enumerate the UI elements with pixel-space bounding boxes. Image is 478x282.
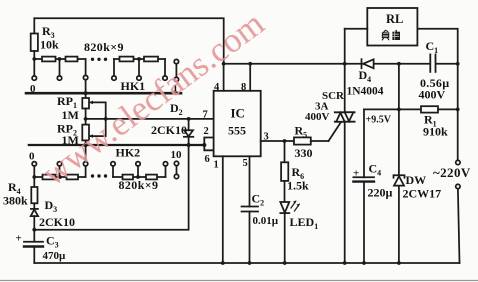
wire +9.5V box	[364, 108, 399, 110]
svg-text:400V: 400V	[419, 88, 446, 102]
svg-text:470µ: 470µ	[43, 250, 67, 262]
svg-text:2CW17: 2CW17	[403, 187, 442, 201]
svg-text:820k×9: 820k×9	[119, 178, 159, 192]
zener DW	[394, 176, 404, 185]
svg-text:0: 0	[29, 151, 35, 163]
svg-text:+: +	[353, 168, 359, 180]
wire pin2/6 bracket	[204, 138, 213, 151]
svg-text:1M: 1M	[62, 108, 79, 122]
node AC terminals	[456, 160, 460, 164]
potentiometer RP2	[82, 125, 89, 141]
svg-text:C3: C3	[46, 234, 59, 250]
node HK2 contacts	[32, 162, 36, 166]
relay RL load box	[367, 8, 417, 46]
LED LED1	[280, 202, 289, 213]
svg-text:3: 3	[264, 132, 269, 143]
diode D2	[188, 119, 190, 130]
svg-text:220µ: 220µ	[368, 186, 393, 200]
svg-text:6: 6	[205, 154, 210, 165]
svg-text:7: 7	[203, 110, 208, 121]
svg-text:1N4004: 1N4004	[347, 86, 384, 98]
capacitor C4	[353, 176, 374, 178]
capacitor C3	[33, 230, 35, 242]
svg-text:2CK10: 2CK10	[151, 123, 187, 137]
svg-text:5: 5	[243, 158, 248, 169]
svg-text:0: 0	[30, 83, 36, 95]
resistor R6	[284, 141, 286, 162]
wire pin3	[261, 140, 294, 142]
wire HK2 chain	[34, 176, 85, 178]
svg-text:555: 555	[228, 124, 246, 138]
svg-text:~220V: ~220V	[433, 165, 471, 180]
wire pin7 net	[86, 118, 214, 120]
svg-text:C4: C4	[369, 162, 382, 178]
svg-text:D3: D3	[45, 198, 58, 214]
svg-text:380k: 380k	[3, 194, 28, 208]
svg-text:+9.5V: +9.5V	[366, 115, 392, 126]
svg-text:330: 330	[295, 146, 313, 160]
triac SCR	[344, 29, 346, 113]
wire bottom rail	[34, 262, 459, 264]
svg-text:10k: 10k	[40, 38, 59, 52]
svg-text:820k×9: 820k×9	[84, 40, 124, 54]
wire HK1 wiper bus	[26, 92, 181, 95]
diode D3	[31, 208, 38, 210]
wire vcc rail	[224, 63, 430, 65]
svg-text:4: 4	[214, 82, 220, 93]
svg-text:D4: D4	[359, 68, 372, 84]
node HK1 taps	[33, 59, 35, 76]
capacitor C2	[242, 206, 259, 208]
chain ellipsis dots	[91, 58, 94, 61]
svg-text:+: +	[16, 233, 22, 245]
svg-text:1: 1	[214, 160, 219, 171]
wire pin4	[223, 64, 225, 91]
svg-text:DW: DW	[406, 173, 427, 187]
svg-text:LED1: LED1	[290, 215, 319, 231]
bottom border	[0, 280, 478, 282]
wire RL left lead	[345, 28, 368, 30]
resistor R3	[33, 18, 35, 33]
svg-text:8: 8	[241, 82, 246, 93]
svg-text:2: 2	[204, 126, 209, 137]
IC 555 U1	[214, 91, 261, 157]
wire top rail	[34, 18, 223, 64]
pin numbers	[203, 82, 269, 171]
resistor R1	[399, 108, 421, 110]
capacitor C1	[429, 54, 431, 72]
wire RL right lead	[417, 29, 457, 161]
svg-text:400V: 400V	[305, 111, 330, 123]
potentiometer RP1	[85, 93, 87, 98]
label SCR	[305, 90, 345, 123]
diode D4	[361, 59, 363, 68]
wire HK1 chain	[34, 58, 85, 60]
node HK2 output terminals	[174, 161, 178, 165]
svg-text:C2: C2	[252, 192, 265, 208]
svg-text:2CK10: 2CK10	[39, 215, 75, 229]
wire pin5	[249, 156, 251, 206]
wire SCR gate	[329, 122, 341, 141]
wire pin2/6 bus (HK2 wiper)	[29, 144, 205, 146]
svg-text:10: 10	[171, 149, 183, 161]
wire D3 to D2 column	[34, 145, 188, 230]
label RL chinese 负载 (drawn)	[382, 30, 400, 40]
svg-text:IC: IC	[231, 106, 245, 121]
node HK1 output terminals	[174, 59, 178, 63]
svg-text:R5: R5	[295, 124, 308, 140]
svg-text:910k: 910k	[423, 124, 448, 138]
wire pin8	[249, 64, 251, 91]
svg-text:C1: C1	[426, 39, 439, 55]
resistor R4	[33, 177, 35, 187]
svg-text:RL: RL	[386, 12, 403, 26]
svg-text:1.5k: 1.5k	[287, 179, 309, 193]
wire pin1	[222, 156, 224, 263]
resistor R5	[294, 137, 311, 144]
svg-text:0.01µ: 0.01µ	[253, 215, 279, 227]
